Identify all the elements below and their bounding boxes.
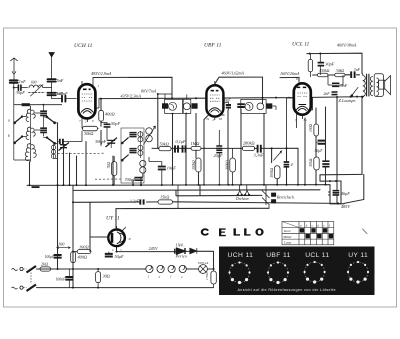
socket UY11 — [348, 262, 368, 282]
resistor 30k UCL — [335, 73, 345, 77]
svg-text:30pF: 30pF — [223, 98, 232, 102]
socket UBF11 — [268, 263, 288, 283]
resistor 1M — [191, 146, 201, 150]
wire vertical x186 x196 — [186, 113, 199, 185]
svg-text:460V/38mA: 460V/38mA — [337, 43, 357, 48]
svg-text:1N4..: 1N4.. — [176, 242, 185, 247]
capacitor 20pF pair — [216, 146, 222, 153]
resistor 400ohm — [99, 110, 104, 121]
svg-text:170Ω: 170Ω — [205, 272, 209, 280]
CELLO logo — [201, 228, 264, 236]
svg-text:7kΩ: 7kΩ — [107, 162, 111, 169]
pen mark — [362, 229, 367, 234]
svg-text:30Ω: 30Ω — [103, 274, 110, 279]
svg-text:485V: 485V — [341, 204, 351, 209]
capacitor 10nF — [158, 167, 166, 170]
wire B+ bus y98 — [99, 97, 364, 99]
svg-text:500kΩ: 500kΩ — [270, 168, 274, 178]
coil band1 left loops — [26, 109, 30, 121]
wire vertical x116 UY top — [115, 209, 117, 228]
capacitor 1nF — [10, 80, 18, 82]
heater H4 — [179, 265, 186, 272]
heater H2 — [157, 265, 164, 272]
tube UCL11 — [287, 81, 313, 148]
wire vertical x63 x69 x76 — [64, 142, 87, 186]
resistor 400ohm psu — [71, 252, 76, 263]
svg-text:20pF: 20pF — [214, 153, 223, 158]
svg-text:280kΩ: 280kΩ — [243, 141, 254, 146]
svg-text:5nF: 5nF — [57, 78, 64, 83]
span arrow 100 — [57, 247, 71, 249]
coil band3 left loops — [25, 144, 30, 161]
svg-text:600: 600 — [31, 81, 37, 85]
svg-text:50μF: 50μF — [115, 254, 124, 259]
svg-text:50kΩ: 50kΩ — [309, 158, 313, 166]
svg-text:300kΩ: 300kΩ — [192, 160, 196, 170]
svg-text:UCL 11: UCL 11 — [305, 252, 329, 259]
terminal mains N — [20, 286, 23, 289]
resistor 450k — [317, 73, 328, 77]
wire vertical x337 x362 — [337, 97, 362, 204]
svg-text:UBF 11: UBF 11 — [204, 42, 222, 48]
svg-text:2kΩ: 2kΩ — [41, 261, 48, 266]
wire — [14, 87, 28, 89]
svg-text:46μF: 46μF — [341, 191, 350, 196]
switch S2 left — [15, 137, 22, 143]
svg-text:160V/26mA: 160V/26mA — [280, 71, 300, 76]
tuned circuit circles — [146, 128, 153, 135]
osc box — [121, 128, 144, 183]
svg-text:100Ω: 100Ω — [79, 244, 89, 249]
capacitor 1.3uF series — [140, 199, 143, 204]
coil band1 right loops — [31, 110, 35, 118]
svg-text:400Ω: 400Ω — [78, 254, 88, 259]
wire UY anode — [73, 202, 107, 251]
coil L1 input — [29, 85, 52, 88]
terminal mains L — [20, 267, 23, 270]
coil L1 core dashed — [29, 92, 46, 94]
wire y190 line — [73, 189, 320, 192]
capacitor 6nF — [332, 83, 339, 86]
chassis tick — [32, 186, 40, 188]
capacitor series antenna — [48, 93, 56, 95]
antenna A2 — [49, 53, 54, 58]
wire mains bottom y287 — [37, 287, 214, 289]
wire UCL screen line y53 — [307, 53, 362, 73]
coil band3 right loops — [31, 145, 36, 158]
capacitor 50uF cathode — [318, 141, 325, 144]
wire switch links — [22, 113, 58, 143]
capacitor 50uF — [105, 254, 113, 257]
wire vertical x158 — [158, 94, 208, 185]
capacitor band pair1 — [40, 111, 47, 115]
wire chassis bus y185 — [27, 185, 344, 204]
svg-text:10nF: 10nF — [167, 165, 176, 170]
svg-text:50kΩ: 50kΩ — [160, 141, 169, 146]
switch S1 left — [15, 117, 22, 123]
wire x178 — [177, 185, 179, 208]
capacitor 0.1uF cathode — [60, 139, 63, 144]
resistor 100ohm cathode — [314, 124, 319, 136]
svg-text:UY 11: UY 11 — [348, 252, 368, 259]
svg-text:Perico: Perico — [175, 254, 188, 259]
wire — [13, 83, 15, 105]
resistor 7k — [112, 162, 117, 176]
IF transformer 2 — [225, 99, 277, 113]
wire 495V line — [93, 77, 172, 98]
osc section components — [58, 110, 166, 185]
wire vertical x73 — [72, 185, 74, 288]
svg-text:100nF: 100nF — [56, 278, 67, 282]
lamp — [199, 265, 208, 274]
resistor 50k cathode — [314, 157, 319, 170]
tube pin digits — [79, 77, 307, 279]
wire — [61, 98, 76, 100]
svg-text:UY 11: UY 11 — [106, 216, 120, 222]
switch Bereich — [262, 185, 270, 208]
svg-text:Mittel: Mittel — [282, 235, 291, 239]
svg-text:15kΩ: 15kΩ — [160, 195, 169, 200]
tube name labels — [74, 42, 310, 222]
capacitor 3nF — [351, 71, 354, 78]
svg-text:UCH 11: UCH 11 — [228, 252, 254, 259]
resistor screen vertical — [308, 59, 312, 71]
capacitor 1uF cathode — [322, 161, 329, 166]
wire y181 line — [320, 174, 364, 203]
svg-text:3nF: 3nF — [354, 68, 361, 72]
speaker — [374, 74, 390, 97]
switch S1 right — [47, 117, 54, 122]
svg-text:1nF: 1nF — [19, 79, 26, 84]
wire volume pot — [272, 148, 278, 185]
coil band2 left loops — [26, 127, 30, 139]
resistor 50k — [159, 147, 171, 151]
trimmer left gang — [59, 143, 70, 151]
capacitor 50pF — [104, 124, 111, 127]
wire grid feed UCL — [280, 77, 299, 81]
wire osc row y148 — [152, 147, 298, 149]
capacitor 0.1uF pair — [175, 145, 186, 152]
svg-text:7a: 7a — [206, 117, 210, 121]
wire vertical x57 — [57, 123, 59, 269]
capacitor 2nF — [332, 92, 338, 95]
output transformer — [363, 74, 373, 99]
capacitor 5nF — [48, 79, 56, 81]
svg-text:UCL 11: UCL 11 — [292, 42, 310, 48]
wire y208 line — [116, 207, 269, 209]
resistor 100ohm UY — [77, 250, 91, 254]
capacitor 100nF series — [62, 96, 65, 102]
svg-text:100μF: 100μF — [45, 255, 56, 259]
wire top link — [14, 105, 62, 110]
capacitor 46uF electrolytic — [333, 191, 340, 195]
detector / volume components — [159, 130, 289, 185]
gang dashed link a — [58, 152, 106, 154]
heater H1 — [146, 265, 153, 272]
resistor 15k — [158, 200, 173, 204]
tube socket panel — [219, 247, 375, 296]
wire vertical x113 x133 x141 — [113, 156, 141, 185]
svg-text:Lang: Lang — [283, 241, 291, 245]
capacitor coupling to UCL — [284, 162, 290, 167]
wire — [52, 82, 61, 99]
bottom area components — [12, 185, 340, 291]
voltage labels — [91, 43, 357, 100]
capacitor 700pF — [135, 178, 143, 181]
antenna A1 — [11, 58, 18, 79]
contact Drehton — [238, 185, 249, 195]
coil osc right column — [139, 131, 141, 158]
svg-text:30kΩ: 30kΩ — [336, 69, 344, 73]
svg-text:400Ω: 400Ω — [105, 112, 115, 117]
UCL anode parts — [308, 53, 358, 170]
tube UBF11 — [206, 81, 224, 120]
wire vertical x286 x298 — [287, 148, 299, 185]
wire anode row UCL — [313, 74, 360, 76]
component value labels — [8, 61, 361, 281]
svg-text:2nF: 2nF — [324, 92, 331, 96]
wire vertical x90 x101 — [100, 99, 102, 146]
capacitor 30pF UCL — [318, 63, 325, 66]
heater H3 — [168, 265, 175, 272]
potentiometer 500k — [274, 151, 282, 161]
svg-text:245V: 245V — [149, 246, 159, 251]
svg-text:450kΩ: 450kΩ — [319, 69, 329, 73]
tube UCH11 — [78, 78, 99, 127]
resistor 30ohm — [96, 272, 101, 283]
diode D1 — [175, 248, 185, 254]
switch Z Lautspr — [352, 87, 358, 95]
svg-text:30pF: 30pF — [325, 61, 334, 66]
socket UCH11 — [230, 263, 250, 283]
capacitor 100nF psu — [65, 277, 73, 280]
socket UCL11 — [305, 262, 325, 282]
svg-text:65: 65 — [219, 117, 223, 121]
svg-text:Kurz: Kurz — [283, 229, 291, 233]
switch S2 right — [47, 138, 54, 143]
wire UY cathode 245V line — [117, 247, 214, 252]
tube UY11 — [108, 226, 125, 249]
wire y196 line — [176, 185, 262, 196]
resistor 170ohm — [211, 271, 216, 284]
wire cathode — [58, 121, 108, 141]
svg-text:80V/7mA: 80V/7mA — [141, 89, 157, 94]
wire vertical x264 — [263, 113, 265, 185]
svg-text:300pF: 300pF — [95, 139, 107, 144]
svg-text:Z.Lautspr.: Z.Lautspr. — [339, 98, 356, 103]
coil L1 arrow — [31, 85, 44, 97]
svg-text:UBF 11: UBF 11 — [266, 252, 291, 259]
wire vertical x27 — [30, 160, 31, 185]
svg-text:50pF: 50pF — [111, 121, 120, 126]
svg-text:30kΩ: 30kΩ — [84, 131, 93, 136]
svg-text:700pF: 700pF — [125, 177, 137, 182]
resistor 30k — [83, 126, 98, 131]
coil band4 — [54, 143, 58, 158]
resistor vertical 200k — [230, 158, 236, 172]
resistor 2k — [40, 267, 51, 271]
svg-text:3a: 3a — [304, 118, 308, 122]
svg-text:b: b — [8, 134, 10, 138]
capacitor 100uF — [54, 255, 62, 258]
svg-text:100nF: 100nF — [57, 91, 69, 96]
capacitor osc a — [129, 133, 136, 137]
capacitor 3.3nF — [258, 145, 261, 153]
svg-text:200kΩ: 200kΩ — [226, 160, 230, 170]
svg-text:Drehton: Drehton — [235, 197, 249, 201]
wire 460V line UBF — [215, 77, 263, 104]
wire y202 line — [73, 181, 341, 204]
wire caps vertical — [43, 105, 45, 137]
wire mains top y269 — [37, 252, 214, 269]
capacitor 30pF series — [18, 85, 21, 90]
switch osc1 — [122, 137, 128, 142]
gang dashed link b — [95, 178, 121, 180]
coil bank center line — [14, 105, 31, 160]
capacitor band pair2 — [40, 128, 47, 132]
svg-text:100Ω: 100Ω — [309, 124, 313, 132]
svg-text:Bereichsch.: Bereichsch. — [277, 196, 295, 200]
svg-text:50μF: 50μF — [315, 149, 324, 153]
capacitor 300pF trimmer — [106, 138, 118, 147]
coil band2 right loops — [31, 128, 35, 136]
resistor 280k — [242, 146, 254, 150]
svg-text:Ansicht auf die Röhrenfassunge: Ansicht auf die Röhrenfassungen von der … — [238, 288, 336, 292]
svg-text:UCH 11: UCH 11 — [74, 43, 93, 49]
svg-text:a: a — [8, 119, 10, 123]
diode D2 — [190, 248, 197, 254]
wire — [51, 57, 53, 78]
coil core bar — [22, 104, 30, 106]
wire vertical x228 x241 — [228, 109, 241, 185]
wire vertical x305 x316 x325 — [305, 107, 326, 185]
switch mains — [27, 266, 37, 273]
svg-text:30pF: 30pF — [16, 90, 25, 95]
svg-text:1MΩ: 1MΩ — [191, 141, 200, 146]
capacitor osc b — [129, 149, 136, 153]
svg-text:100: 100 — [58, 242, 65, 247]
band table — [282, 222, 334, 245]
switch osc2 — [122, 155, 128, 160]
coil 330 — [140, 160, 146, 166]
svg-text:6nF: 6nF — [341, 83, 348, 88]
IF transformer 1 — [158, 94, 198, 113]
resistor vertical 300k — [196, 158, 201, 172]
